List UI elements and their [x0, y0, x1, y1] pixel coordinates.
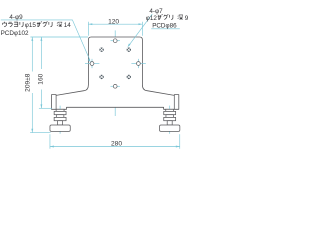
- svg-text:14: 14: [64, 22, 72, 29]
- svg-text:PCDφ102: PCDφ102: [1, 30, 29, 37]
- dimension: 280 (bottom): [50, 134, 180, 149]
- leader arrowhead at phi9 left hole: [88, 59, 91, 62]
- leader right (4-phi7 note): [129, 14, 153, 46]
- arrowhead 160 bottom: [40, 104, 42, 108]
- hole phi9 left (PCD102, 9 o'clock): [90, 62, 94, 66]
- arrowhead 120 left: [88, 23, 92, 25]
- left foot stack: [50, 109, 70, 131]
- svg-text:PCDφ86: PCDφ86: [152, 22, 177, 29]
- svg-text:φ15: φ15: [25, 22, 37, 29]
- hole phi7 upper-left: [99, 48, 103, 52]
- svg-text:160: 160: [38, 73, 45, 84]
- svg-text:9: 9: [185, 15, 189, 22]
- dimension: 120 (top): [88, 22, 142, 36]
- centerline vertical through plate: [114, 30, 116, 116]
- svg-text:209±8: 209±8: [24, 73, 31, 92]
- svg-text:4-φ9: 4-φ9: [9, 14, 23, 21]
- svg-text:120: 120: [108, 18, 119, 25]
- arrowhead 160 top: [40, 37, 42, 41]
- foot centerlines: [59, 106, 61, 134]
- base end inner steps: [55, 95, 57, 109]
- counterbore holes phi7/phi12 (PCD86, 45 deg): [99, 48, 131, 80]
- arrowhead 280 left: [50, 146, 54, 148]
- arrowhead 120 right: [139, 23, 143, 25]
- svg-text:280: 280: [111, 140, 122, 147]
- dimension: 160 (left): [39, 37, 52, 108]
- leader arrowhead at phi7 upper-right hole: [128, 44, 131, 48]
- note text uraysori phi15 zaguri fukasa14 (kana row): [3, 22, 7, 27]
- hole phi7 upper-right: [127, 48, 131, 52]
- hole phi7 lower-right: [127, 75, 131, 79]
- arrowhead 209 bottom: [31, 129, 33, 133]
- underline below PCD86: [151, 28, 180, 30]
- svg-text:φ12: φ12: [146, 15, 158, 22]
- arrowhead 280 right: [176, 146, 180, 148]
- shared top extension line for left dims: [30, 36, 88, 38]
- main body outline: [52, 37, 179, 109]
- dimension: 209 +/- 8 (far left): [30, 37, 50, 133]
- hole phi9 bottom (PCD102, 6 o'clock): [113, 84, 117, 88]
- hole phi9 top (PCD102, 12 o'clock): [113, 39, 117, 43]
- svg-text:4-φ7: 4-φ7: [149, 8, 163, 15]
- hole phi9 right (PCD102, 3 o'clock): [137, 62, 141, 66]
- leader left (4-phi9 note): [1, 20, 90, 60]
- arrowhead 209 top: [31, 37, 33, 41]
- hole cross ticks: [85, 41, 146, 87]
- right foot stack: [160, 109, 180, 131]
- hole phi7 lower-left: [99, 75, 103, 79]
